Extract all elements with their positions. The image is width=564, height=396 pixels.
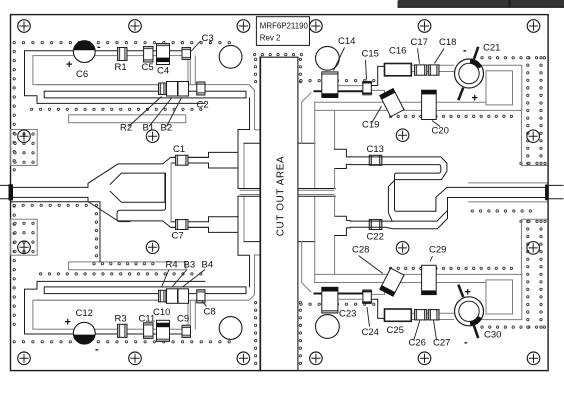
svg-text:C26: C26: [409, 338, 426, 349]
svg-text:B3: B3: [184, 260, 196, 271]
svg-text:C21: C21: [483, 43, 500, 54]
svg-text:C3: C3: [202, 33, 214, 44]
svg-text:C19: C19: [362, 120, 379, 131]
svg-text:C10: C10: [153, 307, 170, 318]
svg-text:C12: C12: [76, 308, 93, 319]
svg-text:C16: C16: [389, 46, 406, 57]
svg-text:C9: C9: [177, 314, 189, 325]
svg-text:-: -: [463, 45, 467, 57]
svg-text:C29: C29: [429, 245, 446, 256]
svg-text:C6: C6: [76, 69, 88, 80]
svg-text:C17: C17: [411, 37, 428, 48]
svg-text:C27: C27: [433, 338, 450, 349]
svg-text:C2: C2: [197, 100, 209, 111]
svg-text:B1: B1: [143, 123, 155, 134]
svg-text:C28: C28: [352, 245, 369, 256]
svg-text:-: -: [97, 41, 101, 53]
svg-text:B4: B4: [202, 260, 214, 271]
svg-text:CUT OUT AREA: CUT OUT AREA: [275, 156, 286, 236]
svg-text:C7: C7: [172, 231, 184, 242]
svg-text:C25: C25: [387, 325, 404, 336]
svg-text:+: +: [472, 93, 478, 105]
svg-text:R3: R3: [115, 314, 127, 325]
svg-text:C8: C8: [204, 307, 216, 318]
svg-text:C13: C13: [367, 144, 384, 155]
svg-text:B2: B2: [161, 123, 173, 134]
svg-text:C22: C22: [367, 232, 384, 243]
svg-text:-: -: [95, 344, 99, 356]
svg-text:C30: C30: [484, 330, 501, 341]
svg-text:+: +: [465, 287, 471, 299]
svg-text:C14: C14: [338, 36, 355, 47]
svg-text:Rev 2: Rev 2: [260, 34, 281, 43]
svg-text:C15: C15: [362, 49, 379, 60]
svg-text:-: -: [464, 337, 468, 349]
svg-text:C20: C20: [432, 126, 449, 137]
svg-text:C24: C24: [362, 327, 379, 338]
svg-text:C18: C18: [439, 37, 456, 48]
svg-text:R2: R2: [120, 123, 132, 134]
svg-text:R1: R1: [115, 62, 127, 73]
svg-text:C5: C5: [142, 62, 154, 73]
svg-text:C1: C1: [173, 144, 185, 155]
svg-text:+: +: [66, 59, 72, 71]
svg-text:C23: C23: [339, 309, 356, 320]
svg-text:+: +: [65, 317, 71, 329]
svg-text:R4: R4: [166, 260, 178, 271]
svg-text:C4: C4: [157, 66, 169, 77]
svg-text:MRF6P21190: MRF6P21190: [260, 22, 309, 31]
